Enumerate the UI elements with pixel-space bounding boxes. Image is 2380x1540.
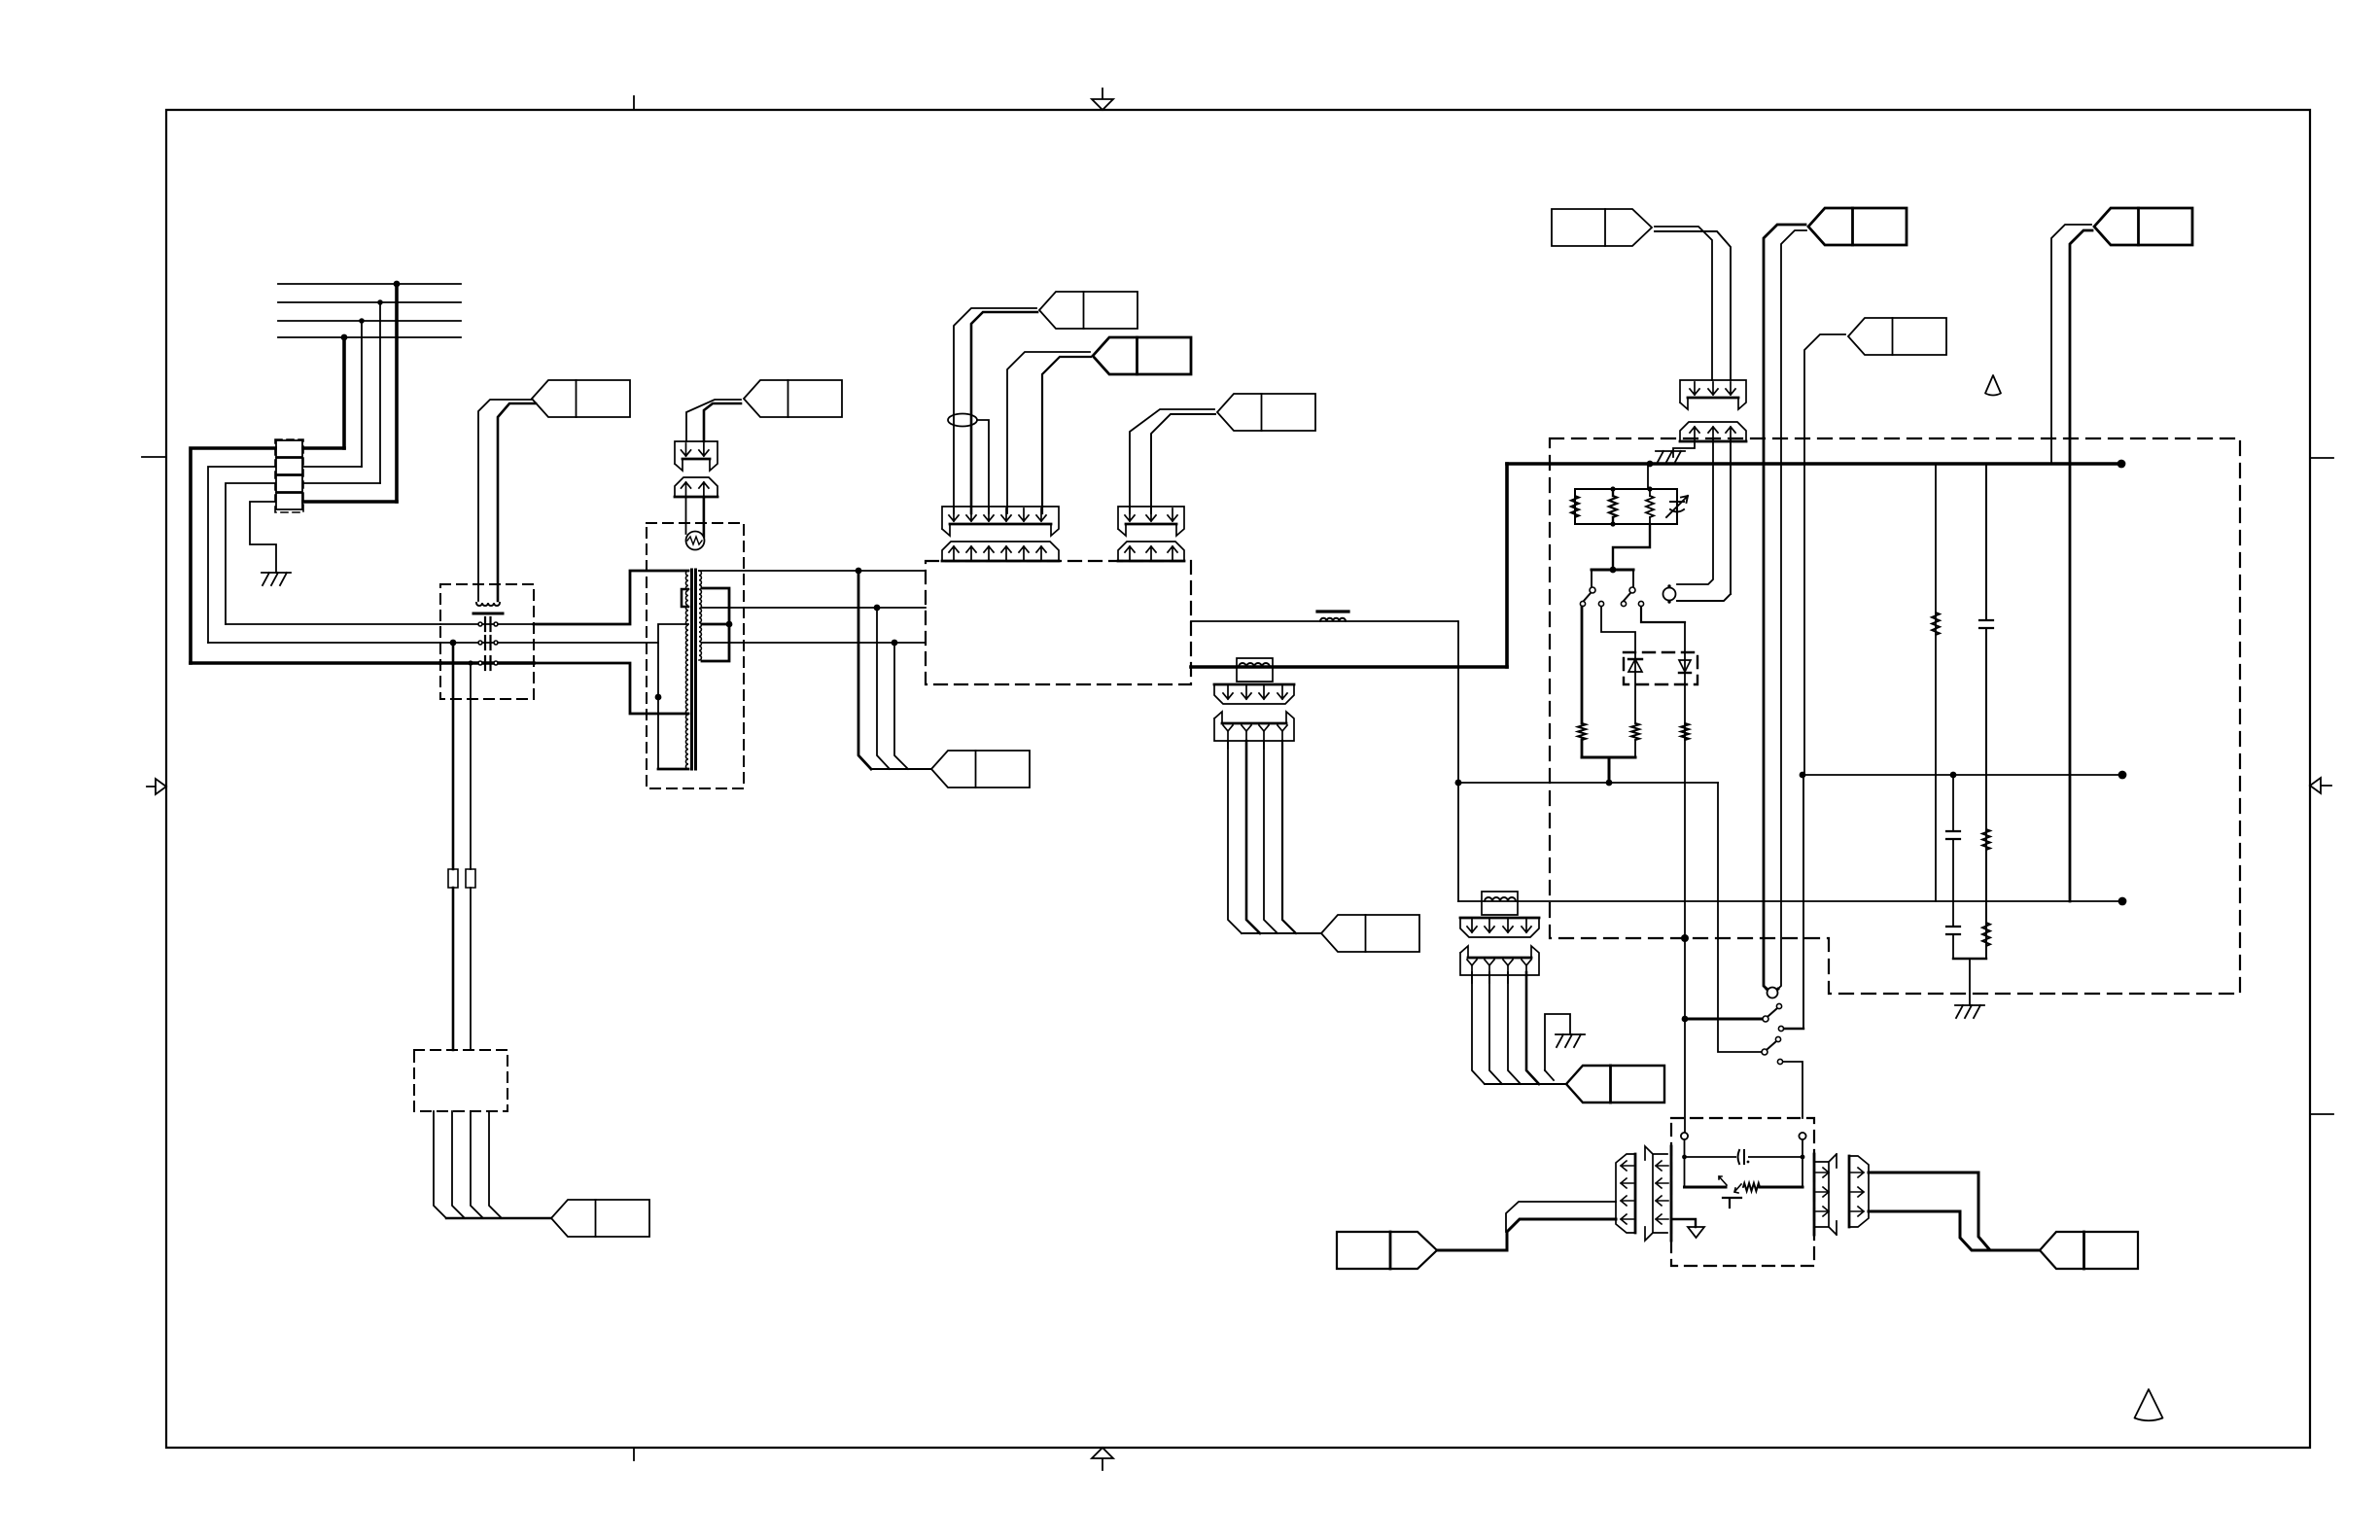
cap bottom bar	[1953, 958, 1986, 960]
transformer T2 dashed box	[1671, 1118, 1814, 1266]
wire pole B out	[1641, 607, 1685, 622]
wire s12 out 1	[1228, 741, 1242, 933]
wire main out thick	[1191, 665, 1507, 669]
wire s6 pin1 to ground	[1673, 440, 1695, 457]
wire row1 left to live line	[191, 448, 275, 663]
resistor R5	[1631, 723, 1639, 740]
power rail	[1507, 462, 2121, 466]
wire fuse A down	[452, 888, 455, 1050]
frame arrow bottom	[1092, 1448, 1113, 1470]
noise filter dashed box	[440, 584, 534, 699]
connector strip S1	[942, 507, 1059, 536]
wire T2 in thick	[1437, 1219, 1616, 1250]
wire f12 drop	[1804, 334, 1845, 775]
resistor R1	[1571, 496, 1579, 517]
resistor R2	[1612, 489, 1614, 496]
capacitor C3	[440, 661, 534, 665]
bus line 1	[278, 283, 461, 285]
terminal right	[1799, 1133, 1805, 1139]
wire aux out	[1191, 620, 1457, 622]
resistor R9	[1982, 923, 1990, 946]
wire bundle to flag F10	[446, 1217, 551, 1219]
wire live in up	[534, 571, 688, 624]
wire rect out 4	[489, 1111, 502, 1218]
switch SW2 bar	[1685, 1018, 1762, 1021]
wire degauss A	[478, 400, 532, 601]
wire row3 left	[226, 483, 275, 624]
connector strip S14	[1645, 1146, 1667, 1241]
switch SW2 pole B	[1762, 1049, 1767, 1055]
wire cap link	[1685, 1156, 1803, 1158]
connector flag F9	[931, 751, 1030, 787]
wire s10 out 1	[1472, 972, 1485, 1084]
sheet frame border	[166, 110, 2310, 1448]
connector flag F10	[551, 1200, 649, 1237]
wire live low	[534, 663, 688, 714]
wire T2 out 1	[1869, 1172, 2040, 1250]
frame arrow right	[2310, 778, 2331, 793]
ground chassis G2	[1656, 450, 1685, 452]
wire rect out 3	[471, 1111, 483, 1218]
wire flag6 B	[704, 403, 741, 441]
wire neutral mid	[534, 642, 658, 644]
diode D1	[1634, 653, 1636, 723]
thermal fuse TF1	[1663, 588, 1676, 601]
wire T2 right lead	[1802, 1139, 1803, 1187]
signal ground mark	[1688, 1227, 1704, 1238]
wire RC to switch bar	[1613, 524, 1650, 570]
rail segment B	[1802, 774, 2122, 776]
wire flag1 pair a	[954, 308, 1036, 513]
rail segment A	[1458, 782, 1718, 784]
connector strip S4	[1118, 542, 1184, 561]
choke coil L1	[476, 603, 500, 606]
resistor R3	[1649, 489, 1651, 496]
connector flag F6	[744, 380, 842, 417]
connector CN1 contact 2	[276, 458, 302, 474]
wire g1 drop a	[1655, 227, 1712, 380]
wire row2 left	[208, 467, 275, 643]
thermistor RT1	[686, 532, 705, 550]
wire SW2a out	[1784, 1028, 1803, 1030]
wire s10 out 3	[1508, 972, 1521, 1084]
wire s10 out 4	[1526, 972, 1539, 1084]
connector flag F8	[2040, 1232, 2138, 1269]
wire flag6 A	[686, 400, 741, 441]
connector strip S8	[675, 477, 717, 497]
secondary winding right	[699, 571, 701, 660]
connector flag F7	[1321, 915, 1419, 952]
wire rail to SW2b	[1718, 783, 1762, 1052]
rectifier dashed box	[414, 1050, 507, 1111]
wire row4 left to ground	[250, 502, 276, 573]
choke box on neutral	[1482, 892, 1518, 915]
capacitor C6	[1945, 927, 1961, 934]
wire R5 to bar	[1634, 740, 1636, 757]
connector strip S3	[1118, 507, 1184, 536]
switch SW1 pole B	[1632, 570, 1634, 586]
wire bus to RC	[1647, 464, 1649, 489]
primary winding left	[685, 571, 688, 769]
wire sec drop 3	[894, 643, 908, 769]
connector CN1 contact 3	[276, 475, 302, 492]
ground chassis G3	[1556, 1033, 1585, 1035]
capacitor C4	[1978, 620, 1994, 628]
wire rect out 1	[434, 1111, 446, 1218]
CRT board dashed box	[1550, 438, 2240, 994]
wire SW2b out	[1783, 1062, 1802, 1118]
ground chassis G4	[1955, 1004, 1984, 1006]
connector flag G2	[1337, 1232, 1437, 1269]
switch feed bar	[1592, 569, 1633, 572]
wire f11 drop b	[1777, 230, 1806, 990]
wire thermistor leads	[685, 497, 687, 534]
connector flag F13	[2094, 208, 2192, 245]
connector CN1 contact 1	[276, 440, 302, 457]
wire s10 out 2	[1489, 972, 1502, 1084]
ground chassis G1	[262, 572, 291, 574]
wire s6 pin3 down	[1677, 440, 1731, 601]
wire fuse B down	[470, 888, 472, 1050]
connector flag F5	[532, 380, 630, 417]
frame arrow top	[1092, 88, 1113, 110]
terminal left	[1681, 1133, 1688, 1139]
wire T2 out 2	[1869, 1211, 2005, 1250]
wire degauss B	[498, 403, 536, 601]
capacitor C1	[440, 623, 534, 625]
wire R4 to bar	[1581, 740, 1584, 757]
connector strip S13	[1616, 1154, 1635, 1233]
wire row4 right	[303, 500, 397, 504]
connector flag F1	[1039, 292, 1137, 329]
frame tick right lower	[2310, 1113, 2333, 1115]
wire row3 right	[303, 482, 380, 484]
primary jog upper	[682, 589, 688, 607]
tap wire to connector row1	[342, 337, 346, 448]
wire flag2 pair a	[1007, 352, 1090, 513]
fuse FU2	[466, 869, 475, 888]
RC network box	[1575, 489, 1677, 524]
diode dashed box	[1624, 652, 1697, 684]
wire main up to bus	[1505, 464, 1509, 667]
frame tick left	[142, 456, 166, 458]
switch SW2 pole A	[1763, 1016, 1768, 1022]
capacitor C7	[1736, 1149, 1748, 1165]
winding box on main	[1237, 658, 1273, 682]
wire s12 out 3	[1264, 741, 1277, 933]
trimmer cap VC1	[1666, 489, 1688, 524]
connector CN1 dashed outline	[275, 439, 303, 512]
wire T2 left lead	[1684, 1139, 1686, 1187]
neutral line	[1458, 900, 2122, 902]
switch output bar	[1582, 756, 1635, 759]
diode D2	[1679, 660, 1691, 672]
wire twist tap	[977, 420, 989, 513]
fuse FU1	[448, 869, 458, 888]
wire f11 drop a	[1764, 225, 1805, 990]
wire f13 drop b	[2070, 230, 2092, 901]
wire filter to fuse pair A	[452, 643, 455, 869]
connector strip S5	[1680, 380, 1746, 409]
wire bar to ground	[1969, 959, 1971, 1005]
connector flag F12	[1848, 318, 1946, 355]
wire flag1 pair b	[971, 312, 1037, 513]
capacitor C5	[1945, 831, 1961, 839]
wire flag3 pair b	[1151, 414, 1215, 513]
wire s12 out 2	[1246, 741, 1260, 933]
revision mark small	[1985, 375, 2001, 396]
resistor R4	[1578, 723, 1586, 740]
wire line-a	[226, 623, 440, 625]
resistor R8	[1982, 829, 1990, 850]
wire sec drop 2	[877, 608, 890, 769]
transformer T1 dashed box	[647, 523, 744, 788]
wire flag3 pair a	[1130, 409, 1214, 513]
connector flag F2	[1093, 337, 1191, 374]
wire bundle to flag F4	[1485, 1083, 1566, 1085]
wire T2 in thin	[1506, 1202, 1616, 1232]
thermal protector TP2	[1767, 988, 1778, 998]
wire g1 drop b	[1655, 231, 1731, 380]
wire column K3	[1952, 775, 1954, 959]
wire bundle to flag F9	[871, 768, 931, 770]
wire s12 out 4	[1282, 741, 1296, 933]
connector strip S12	[1214, 712, 1294, 741]
wire live column	[1684, 622, 1686, 1133]
wire ground stub	[1545, 1014, 1570, 1070]
wire shield to sgnd	[1671, 1219, 1696, 1227]
wire aux down	[1457, 621, 1459, 901]
wire line-c main live	[191, 661, 440, 665]
primary tap rail	[658, 624, 688, 769]
wire sec out 1	[699, 570, 926, 572]
frame arrow left	[147, 779, 166, 794]
twist marker	[948, 414, 977, 427]
revision mark large	[2135, 1389, 2163, 1420]
wire row1 right	[303, 446, 344, 450]
wire column K1	[1935, 464, 1937, 901]
wire filter to fuse pair B	[470, 663, 472, 869]
wire f13 drop a	[2051, 225, 2091, 464]
wire sec drop 1	[858, 571, 871, 769]
connector strip S16	[1849, 1156, 1869, 1227]
connector CN1 contact 4	[276, 493, 302, 509]
connector strip S9	[1460, 918, 1539, 937]
tap wire to connector row3	[379, 302, 381, 483]
degauss posistor Q1	[1743, 1183, 1760, 1191]
connector strip S2	[942, 542, 1059, 561]
bus line 2	[278, 301, 461, 303]
wire bar stub	[1608, 757, 1611, 783]
choke on aux	[1320, 618, 1346, 621]
tap wire to connector row4	[395, 284, 399, 502]
wire row2 right	[303, 466, 362, 468]
wire rect out 2	[452, 1111, 465, 1218]
wire sec out 2	[702, 607, 926, 609]
wire bundle to flag F7	[1242, 932, 1321, 934]
frame tick bottom	[633, 1448, 635, 1460]
wire column K2	[1985, 464, 1987, 959]
connector flag F11	[1808, 208, 1907, 245]
connector strip S7	[675, 441, 717, 471]
wire s6 pin2 down	[1677, 440, 1713, 584]
wire pole A out	[1581, 607, 1584, 723]
T2 primary bar	[1685, 1186, 1727, 1189]
connector flag G1	[1552, 209, 1652, 246]
tap wire to connector row2	[361, 321, 363, 467]
wire flag2 pair b	[1042, 357, 1091, 513]
secondary jump rail	[702, 588, 729, 661]
capacitor C2	[440, 642, 534, 644]
wire SW1out up	[1802, 775, 1804, 1029]
wire line-b	[208, 642, 440, 644]
switch SW1 pole A	[1591, 570, 1592, 586]
connector strip S15	[1814, 1154, 1837, 1235]
resistor R6	[1681, 723, 1689, 740]
frame tick top	[633, 96, 635, 110]
connector strip S10	[1460, 946, 1539, 975]
wire pole A2 out	[1601, 607, 1635, 653]
transformer core	[690, 570, 693, 769]
bus line 3	[278, 320, 461, 322]
resistor R7	[1932, 612, 1940, 635]
main PCB dashed box	[926, 561, 1191, 684]
connector flag F3	[1217, 394, 1315, 431]
connector strip S6	[1680, 422, 1746, 441]
connector flag F4	[1566, 1066, 1664, 1102]
frame tick right upper	[2310, 457, 2333, 459]
bus line 4	[278, 336, 461, 338]
wire sec out 3	[702, 642, 926, 644]
connector strip S11	[1214, 684, 1294, 704]
